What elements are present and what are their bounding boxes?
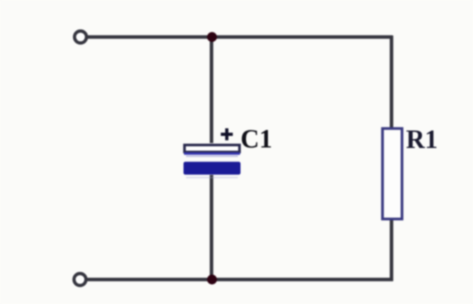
svg-text:R1: R1 <box>406 125 438 154</box>
svg-text:C1: C1 <box>241 125 273 154</box>
